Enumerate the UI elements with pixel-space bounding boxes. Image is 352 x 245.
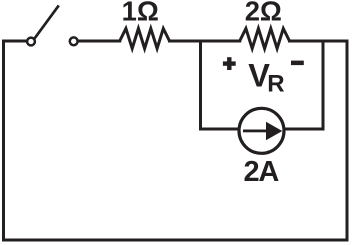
wire: top-left segment from corner to switch pivot: [4, 40, 26, 43]
wire: R1 to node A and on to resistor R2: [170, 40, 240, 43]
wire: bottom of outer loop: [4, 239, 348, 242]
svg-text:1Ω: 1Ω: [122, 0, 159, 26]
label: minus polarity mark of VR: [291, 61, 304, 66]
wire: inner branch bottom-left to current source: [201, 128, 240, 131]
wire: switch to resistor R1: [79, 40, 120, 43]
svg-text:2A: 2A: [243, 156, 279, 188]
svg-text:2Ω: 2Ω: [245, 0, 282, 27]
svg-text:R: R: [267, 70, 284, 97]
wire: node A down (inner branch left side): [199, 41, 202, 129]
wire: R2 to top-right corner: [290, 40, 348, 43]
wire: left side of outer loop: [2, 41, 5, 240]
resistor 1ohm zigzag: [120, 29, 170, 49]
switch S1 pivot terminal: [27, 38, 35, 46]
label: plus polarity mark of VR: [223, 57, 236, 70]
switch S1 right terminal: [70, 37, 78, 45]
current source I1 circle: [239, 108, 284, 153]
wire: current source to inner branch bottom-right: [284, 128, 323, 131]
switch S1 blade (open): [35, 7, 59, 39]
resistor 2ohm zigzag: [240, 29, 290, 49]
current source I1 arrow: [243, 122, 282, 140]
wire: inner branch right side up to node B: [322, 41, 325, 129]
wire: right side of outer loop: [346, 41, 349, 240]
